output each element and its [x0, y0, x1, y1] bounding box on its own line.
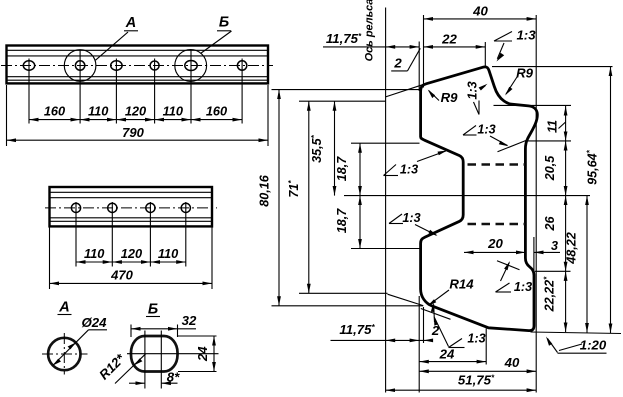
dim 11,75 bottom	[331, 339, 433, 341]
plate 1 centerline	[1, 65, 273, 67]
plate 1 edge line bottom 2	[7, 76, 269, 78]
diameter leader F24	[53, 330, 89, 366]
svg-text:Ø24: Ø24	[82, 315, 108, 330]
plate 1 edge line top 2	[7, 55, 269, 57]
section B vertical construction lines	[144, 331, 146, 389]
section B oval	[131, 336, 178, 372]
svg-text:110: 110	[158, 246, 178, 261]
left dim column 18,7 lower	[359, 196, 361, 249]
dim 11,75 top	[323, 46, 419, 48]
svg-text:1:3: 1:3	[514, 280, 532, 294]
svg-text:1:3: 1:3	[400, 163, 418, 177]
profile outline	[421, 67, 538, 331]
svg-text:R9: R9	[516, 66, 534, 81]
svg-text:26: 26	[543, 216, 557, 232]
right dim column 26	[565, 196, 567, 272]
svg-text:120: 120	[121, 246, 142, 261]
plate 2 centerline	[45, 207, 217, 209]
svg-text:1:3: 1:3	[467, 332, 485, 346]
R12 leader	[115, 354, 146, 384]
plate 1 edge line bottom 1	[7, 79, 269, 81]
dim 40 bottom	[419, 370, 536, 372]
svg-text:48,22: 48,22	[565, 232, 579, 265]
svg-text:24: 24	[195, 346, 210, 362]
dim 2 top leader	[391, 70, 407, 72]
hole extension lines plate 1	[28, 59, 30, 124]
svg-text:8*: 8*	[167, 370, 180, 385]
svg-text:Б: Б	[219, 15, 229, 31]
hole 1 (oval)	[23, 61, 34, 70]
long mid extension line	[344, 195, 590, 197]
slope symbol 1:3 middle	[463, 134, 477, 136]
hole 6 (round)	[237, 61, 246, 70]
svg-text:Б: Б	[148, 302, 158, 318]
horizontal extension lines right	[492, 66, 613, 68]
svg-text:160: 160	[44, 104, 65, 119]
hole 3 (oval)	[111, 61, 122, 70]
plate 2 hole 2	[108, 203, 117, 212]
slope symbol 1:3 at step	[496, 291, 512, 293]
svg-text:1:20: 1:20	[580, 338, 607, 353]
detail circle B	[175, 50, 207, 82]
svg-text:24: 24	[439, 347, 455, 362]
leader A	[96, 32, 129, 60]
svg-text:470: 470	[110, 268, 133, 283]
right dim column 48,22	[586, 196, 588, 333]
svg-text:3: 3	[551, 239, 558, 253]
svg-text:40: 40	[472, 4, 488, 19]
step slope construction	[497, 261, 520, 270]
svg-text:2: 2	[431, 323, 440, 338]
svg-text:32: 32	[182, 313, 197, 328]
svg-text:110: 110	[88, 104, 108, 119]
section B centerline	[127, 353, 219, 355]
slope symbol 1:3 lower web	[389, 223, 403, 225]
svg-text:1:3: 1:3	[466, 81, 480, 99]
right dim column 95,64	[610, 67, 612, 333]
svg-text:А: А	[125, 15, 136, 31]
left dim column 18,7 upper	[359, 143, 361, 195]
dim 20 waist	[464, 251, 525, 253]
slope symbol 1:3 top right	[494, 40, 512, 42]
bottom 1:3 construction line	[421, 309, 451, 320]
right dim column 20,5	[565, 141, 567, 196]
dim 24	[178, 335, 217, 337]
svg-text:1:3: 1:3	[477, 123, 495, 137]
horizontal extension lines left	[272, 89, 420, 91]
hidden slot dashed line upper	[468, 163, 526, 166]
svg-text:18,7: 18,7	[335, 156, 349, 182]
dim 8*	[129, 382, 145, 384]
bottom slope construction to axis	[388, 294, 424, 305]
rail axis	[385, 8, 387, 393]
svg-text:1:3: 1:3	[402, 211, 420, 225]
svg-text:11,75*: 11,75*	[326, 31, 362, 46]
svg-text:22: 22	[441, 32, 457, 47]
section A centerlines	[42, 353, 88, 355]
svg-text:11,75*: 11,75*	[339, 322, 375, 337]
hole 5 (oval, at B)	[185, 61, 197, 71]
hole 2 (round, at A)	[75, 61, 84, 70]
left dim column 71	[308, 101, 310, 293]
svg-text:80,16: 80,16	[258, 174, 272, 207]
section A circle	[48, 338, 80, 370]
svg-text:22,22*: 22,22*	[543, 276, 557, 313]
dim chain 160/110/120/110/160	[29, 119, 80, 121]
svg-text:110: 110	[163, 104, 183, 119]
svg-text:1:3: 1:3	[516, 28, 536, 43]
hole 4 (round)	[150, 61, 159, 70]
slope symbol 1:20	[558, 352, 607, 354]
svg-text:Ось рельса: Ось рельса	[364, 0, 376, 61]
svg-text:20: 20	[487, 236, 503, 251]
dim 22	[424, 46, 486, 48]
svg-text:R9: R9	[441, 90, 459, 105]
plate 2 hole 4	[181, 203, 190, 212]
svg-text:95,64*: 95,64*	[586, 149, 600, 185]
detail circle A	[64, 50, 96, 82]
vertical extension lines	[418, 42, 420, 92]
11.75 deg slope construction	[386, 84, 424, 97]
slope symbol 1:3 upper web	[384, 175, 399, 177]
plate 2 edge line top 2	[50, 197, 213, 199]
plate 2 body	[50, 187, 213, 226]
svg-text:35,5*: 35,5*	[310, 134, 324, 163]
right dim column 11	[565, 106, 567, 141]
dim 24 bottom	[419, 361, 486, 363]
plate 1 edge line top 1	[7, 49, 269, 51]
svg-text:А: А	[58, 300, 69, 316]
svg-text:110: 110	[84, 246, 104, 261]
svg-text:18,7: 18,7	[335, 208, 349, 234]
svg-text:51,75*: 51,75*	[458, 373, 495, 388]
svg-text:2: 2	[393, 56, 402, 71]
plate 1 body	[7, 46, 269, 84]
dim chain 110/120/110	[76, 261, 112, 263]
slope symbol 1:3 bottom	[449, 347, 465, 349]
svg-text:120: 120	[125, 104, 146, 119]
dim 3 step	[534, 251, 560, 253]
plate 2 hole 3	[146, 203, 155, 212]
head-web 1:3 slope construction line	[498, 140, 527, 152]
dim 40 top	[424, 18, 537, 20]
svg-text:40: 40	[504, 355, 520, 370]
right dim column 22,22	[565, 271, 567, 332]
hole extension lines plate 2	[75, 202, 77, 267]
plate 2 edge line bottom 2	[50, 217, 213, 219]
leader B	[201, 31, 232, 54]
dim 470	[49, 228, 51, 290]
hidden slot dashed line lower	[468, 223, 526, 226]
left dim column 80,16	[278, 90, 280, 306]
plate 2 edge line bottom 1	[50, 220, 213, 222]
dim 32	[130, 325, 132, 338]
dim 790	[6, 85, 8, 146]
plate 2 hole 1	[71, 203, 80, 212]
svg-text:R14: R14	[449, 277, 474, 292]
left dim column 35,5	[334, 101, 336, 195]
plate 2 edge line top 1	[50, 191, 213, 193]
svg-text:160: 160	[206, 104, 227, 119]
svg-text:790: 790	[122, 125, 144, 140]
dim 51,75 bottom	[386, 389, 537, 391]
svg-text:20,5: 20,5	[543, 155, 557, 182]
svg-text:11: 11	[546, 120, 560, 133]
